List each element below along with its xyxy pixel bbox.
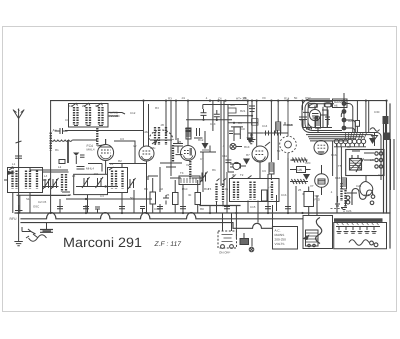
tube V1 <box>98 139 114 161</box>
svg-text:V2: V2 <box>133 144 137 148</box>
tube V6 AF amp <box>314 141 328 155</box>
wire left drop from rail to cluster <box>50 101 52 213</box>
svg-text:LW: LW <box>298 168 303 172</box>
svg-text:C14: C14 <box>262 124 268 128</box>
svg-text:Marconi 291: Marconi 291 <box>63 235 142 250</box>
LW MW label boxes <box>290 167 311 173</box>
svg-text:R1: R1 <box>55 148 59 152</box>
svg-text:1Mc: 1Mc <box>143 130 149 134</box>
wire bus top line <box>15 212 390 214</box>
svg-text:OSC: OSC <box>305 96 311 100</box>
tube V5 osc top-right <box>309 106 320 121</box>
coil horizontal hatched L2 with zigzag <box>290 179 308 184</box>
tube V2 frequency changer <box>139 101 157 213</box>
wire second rail left <box>65 130 144 132</box>
svg-text:25: 25 <box>243 96 247 100</box>
svg-text:50: 50 <box>130 196 134 200</box>
pill component 1 <box>309 103 318 107</box>
bottom-left RFU capacitor <box>14 205 22 246</box>
svg-text:25: 25 <box>166 193 170 197</box>
caps next to arrow <box>76 155 84 164</box>
svg-text:C4: C4 <box>100 194 104 198</box>
verticals from top rail mid <box>166 101 303 186</box>
coil left mid <box>43 172 71 192</box>
resistor vertical right <box>342 178 347 189</box>
chassis thick bar <box>334 218 383 222</box>
output transformer unit box <box>346 150 384 176</box>
svg-text:R5: R5 <box>144 187 148 191</box>
svg-text:LS: LS <box>370 158 374 162</box>
svg-text:C7: C7 <box>200 157 204 161</box>
svg-text:50: 50 <box>277 149 281 153</box>
svg-text:MHL4: MHL4 <box>86 167 94 171</box>
coil chain on left rail <box>50 133 52 151</box>
capacitor row under bar <box>336 227 380 234</box>
svg-text:25: 25 <box>298 188 302 192</box>
verticals bottom right section <box>333 139 394 249</box>
antenna <box>13 109 24 197</box>
svg-text:C17: C17 <box>300 118 306 122</box>
bead chain between V2 V3 <box>172 145 174 163</box>
svg-text:R18: R18 <box>335 176 341 180</box>
tube V3 IF amp <box>181 101 196 161</box>
cluster mid caps under rails <box>185 126 202 139</box>
svg-text:AE: AE <box>334 103 338 107</box>
svg-text:C13: C13 <box>210 122 216 126</box>
svg-text:L6: L6 <box>157 138 161 142</box>
svg-text:MHL4: MHL4 <box>87 148 95 152</box>
svg-text:C15: C15 <box>250 205 256 209</box>
svg-text:25: 25 <box>178 140 182 144</box>
svg-text:50: 50 <box>294 96 298 100</box>
svg-text:2M: 2M <box>82 104 87 108</box>
tone control squiggle <box>370 128 380 140</box>
svg-text:R14: R14 <box>284 97 290 101</box>
winding chains right of choke <box>331 176 348 211</box>
svg-text:L3: L3 <box>110 162 114 166</box>
svg-text:.05: .05 <box>224 187 228 191</box>
svg-text:L7: L7 <box>268 185 272 189</box>
svg-text:C25: C25 <box>364 193 370 197</box>
svg-text:OSC: OSC <box>33 205 39 209</box>
tube V4 detector <box>252 101 270 178</box>
svg-text:A.C.: A.C. <box>275 229 281 233</box>
dashed box switch unit bottom <box>218 231 237 248</box>
wire bus third line <box>21 223 273 229</box>
svg-text:C1: C1 <box>65 118 69 122</box>
svg-text:R16: R16 <box>331 153 337 157</box>
svg-text:.1: .1 <box>330 190 333 194</box>
choke box above transformer <box>304 187 314 216</box>
trimmer cluster under V1 <box>82 177 90 188</box>
top cap connector V4 <box>230 144 246 170</box>
svg-text:.05: .05 <box>160 123 164 127</box>
small caps above bus <box>57 195 291 213</box>
svg-text:.1: .1 <box>205 96 208 100</box>
svg-text:OP: OP <box>347 145 351 149</box>
box small label top-right <box>333 99 348 108</box>
dashed dome shield <box>149 127 173 145</box>
svg-text:V3: V3 <box>262 96 266 100</box>
wire right rails <box>384 101 391 248</box>
svg-text:1M: 1M <box>69 104 74 108</box>
svg-text:L8: L8 <box>250 133 254 137</box>
svg-text:R21: R21 <box>240 109 246 113</box>
grid stopper arrow <box>73 153 79 156</box>
switch terminals right column <box>342 102 346 130</box>
resistor column x278 <box>276 101 281 160</box>
svg-text:R4: R4 <box>155 106 159 110</box>
svg-text:200-250: 200-250 <box>275 238 287 242</box>
dial lamp wiring loops <box>335 189 375 206</box>
resistor hatched right-mid <box>269 163 274 174</box>
svg-text:R15: R15 <box>287 123 293 127</box>
fan drops to connector row <box>346 133 367 140</box>
svg-text:S1: S1 <box>26 197 30 201</box>
pill component 2 <box>324 103 331 107</box>
coil chain under T1 <box>96 128 98 146</box>
connector row terminals <box>334 139 366 147</box>
resistor hatched near V5 <box>316 117 321 128</box>
cluster caps between V3 V4 <box>225 150 240 172</box>
svg-text:R13: R13 <box>244 145 250 149</box>
svg-text:C12: C12 <box>130 111 136 115</box>
svg-text:R20: R20 <box>348 119 354 123</box>
wire ribbon bundle curves <box>302 99 381 180</box>
svg-text:R11: R11 <box>204 187 209 191</box>
capacitor black C right 1 <box>383 116 389 124</box>
svg-text:C11: C11 <box>222 154 227 158</box>
svg-text:C30: C30 <box>374 110 380 114</box>
svg-text:C2 C5: C2 C5 <box>38 200 47 204</box>
ground symbol mid <box>247 133 256 144</box>
ground arrow cluster mid <box>202 143 209 149</box>
svg-text:C6: C6 <box>218 97 222 101</box>
svg-text:T5: T5 <box>338 164 342 168</box>
speaker curvy <box>347 176 373 196</box>
svg-text:R12: R12 <box>198 138 204 142</box>
svg-text:C26: C26 <box>346 209 352 213</box>
svg-text:R9: R9 <box>238 121 242 125</box>
antenna coil box <box>8 167 43 193</box>
svg-text:C22: C22 <box>378 173 384 177</box>
small box left of V1 <box>59 160 65 164</box>
cluster x230-258 caps and coil loop <box>228 101 258 141</box>
svg-text:R6: R6 <box>212 168 216 172</box>
svg-text:30: 30 <box>188 193 192 197</box>
mains cord squiggle <box>349 240 378 247</box>
svg-text:R8: R8 <box>200 207 204 211</box>
bead chain below V3 <box>189 161 191 179</box>
lamp and resistor bottom mid <box>236 227 253 252</box>
cathode wire thick <box>67 140 69 163</box>
extra bottom-left wiring <box>13 193 317 216</box>
svg-text:FLD: FLD <box>315 197 320 201</box>
IF transformer box under V3 <box>179 176 200 185</box>
svg-text:RFU: RFU <box>10 217 18 221</box>
wire top HT rail <box>51 100 387 102</box>
coupling coil horizontal <box>51 140 97 141</box>
svg-text:1Mc: 1Mc <box>150 146 156 150</box>
svg-text:L5: L5 <box>72 174 76 178</box>
tube V7 output <box>315 165 329 195</box>
wire T1 right stub <box>108 113 125 117</box>
switch fuse cluster bottom-left <box>22 223 53 242</box>
AVC coil pair <box>217 179 227 214</box>
svg-text:C24: C24 <box>356 184 362 188</box>
svg-text:.02: .02 <box>159 187 163 191</box>
svg-text:L10: L10 <box>290 158 295 162</box>
svg-text:C8: C8 <box>241 127 245 131</box>
svg-text:Z.F : 117: Z.F : 117 <box>154 241 182 248</box>
power transformer box <box>303 216 333 249</box>
svg-text:C16: C16 <box>281 193 287 197</box>
capacitor black C right 2 <box>384 133 390 141</box>
tube V8 magic eye dashed <box>280 101 297 158</box>
svg-text:L2: L2 <box>58 165 62 169</box>
svg-text:.1: .1 <box>222 144 225 148</box>
coil hatched upper zigzag <box>291 158 308 163</box>
svg-text:MAINS: MAINS <box>275 233 285 237</box>
junction dots on top rail <box>175 100 177 102</box>
extra vertical feeders to bus <box>30 152 288 223</box>
svg-text:R10: R10 <box>182 187 188 191</box>
bead row bottom left of osc block <box>306 128 312 130</box>
svg-text:T2: T2 <box>240 173 244 177</box>
switch wiring curves right <box>341 93 359 133</box>
svg-text:C3: C3 <box>120 137 124 141</box>
svg-text:C10: C10 <box>154 207 160 211</box>
arrow into coil box <box>8 171 15 175</box>
svg-text:R3: R3 <box>168 97 172 101</box>
svg-text:.01: .01 <box>181 96 185 100</box>
cluster under V2 mixer <box>160 138 183 176</box>
coil horizontal hatched L1 <box>248 131 288 136</box>
svg-text:V7: V7 <box>310 184 314 188</box>
svg-text:C20: C20 <box>305 161 311 165</box>
wires left cluster horizontals <box>30 141 147 170</box>
svg-text:V2: V2 <box>186 163 190 167</box>
trimmer group left <box>43 178 51 189</box>
mains text box <box>273 227 298 250</box>
wire antenna into box <box>4 180 47 213</box>
svg-text:.001: .001 <box>93 172 99 176</box>
svg-text:VOLTS: VOLTS <box>275 242 285 246</box>
resistor row mid-bottom <box>150 192 156 204</box>
capacitor on left rail <box>55 128 68 134</box>
IF transformer box under V4 <box>230 176 280 202</box>
svg-text:R7: R7 <box>246 153 250 157</box>
gang condenser box <box>74 174 108 194</box>
capacitors top middle <box>186 108 236 121</box>
scattered tiny labels <box>12 96 384 213</box>
svg-text:L4: L4 <box>44 174 48 178</box>
svg-text:L1: L1 <box>12 162 16 166</box>
transformer T1 box (3-gang padder can) <box>69 103 109 127</box>
svg-text:3M: 3M <box>95 104 100 108</box>
junction dots on bus <box>18 212 20 214</box>
wire service row <box>200 205 240 207</box>
coil box 2nd gang <box>108 167 128 193</box>
V5 bundle inner wires <box>308 110 330 128</box>
svg-text:C9: C9 <box>262 169 266 173</box>
svg-text:R2: R2 <box>118 159 122 163</box>
svg-text:ON OFF: ON OFF <box>219 251 230 255</box>
wires bottom mid verticals <box>210 186 304 231</box>
svg-text:300: 300 <box>230 103 235 107</box>
wire bus lower line with loops <box>21 213 302 219</box>
svg-text:25: 25 <box>68 193 72 197</box>
svg-text:IFT: IFT <box>232 173 237 177</box>
svg-text:T3: T3 <box>180 171 184 175</box>
